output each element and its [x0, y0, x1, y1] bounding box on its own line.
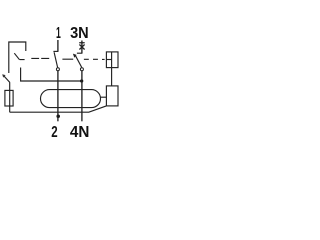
wire: test contact to node A	[21, 68, 82, 82]
trip coil conductor	[111, 52, 113, 86]
pole 3N moving blade	[75, 55, 82, 67]
electronics module box A1	[106, 86, 118, 106]
mechanical linkage dashed line	[20, 58, 105, 59]
test-resistor contact blade with arrow	[4, 76, 10, 83]
pole 1 pivot circle	[56, 68, 59, 71]
pole 1 terminal lead	[57, 40, 59, 51]
trip coil box K1	[106, 52, 118, 68]
svg-text:2: 2	[51, 124, 57, 141]
pole 1 moving blade	[54, 52, 58, 67]
trip coil inner tick	[106, 59, 111, 61]
svg-text:3N: 3N	[70, 25, 89, 42]
wire: toroid secondary to electronics module	[101, 96, 107, 98]
node A junction dot on 3N conductor	[80, 79, 83, 82]
resistor R (test resistor box)	[5, 90, 13, 106]
test button contact T blade	[14, 53, 19, 60]
pole 3N terminal lead	[81, 41, 83, 54]
pole 1 fixed contact bar	[53, 50, 58, 52]
node B junction dot on conductor 2	[56, 114, 60, 118]
wire: conductor 2	[57, 71, 59, 121]
svg-text:4N: 4N	[70, 124, 90, 141]
wire: conductor 4N	[81, 71, 83, 121]
svg-text:1: 1	[56, 25, 61, 42]
asterisk mark on neutral pole	[79, 43, 85, 50]
pole 3N fixed contact bar	[77, 52, 83, 54]
wire: blade to resistor and through it	[9, 83, 11, 113]
pole 3N pivot circle	[80, 68, 83, 71]
current transformer toroid W1	[41, 90, 101, 108]
wire: test-button frame (left vertical, top, right fixed terminal)	[9, 42, 26, 73]
wire: resistor bottom to electronics module	[10, 106, 107, 112]
pole 3N blade arrowhead	[73, 54, 77, 58]
